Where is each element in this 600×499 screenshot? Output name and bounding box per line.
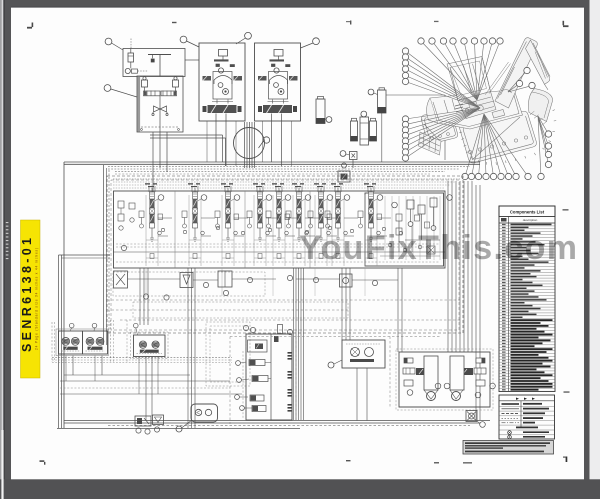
connecting lines (144, 87, 146, 93)
pilot pump block outline (137, 76, 183, 132)
check valve capsule left (144, 91, 161, 96)
scattered pilot circles in bank (161, 228, 164, 231)
callout for travel-R spool (327, 195, 333, 201)
main pump P2 fork (270, 76, 288, 81)
accumulator group (351, 121, 358, 141)
right travel group (476, 358, 485, 363)
solenoid manifold box (338, 171, 350, 182)
callout below swivel box (480, 422, 486, 428)
left return riser (63, 162, 65, 428)
tee line structure (148, 54, 171, 56)
pilot filter block outline (123, 49, 185, 77)
bottom dark band (0, 479, 600, 499)
shuttle box C (218, 271, 232, 287)
boom (495, 38, 537, 108)
main pump P2 orifice circle (274, 68, 279, 73)
shuttle box B (180, 273, 193, 288)
dashed boundary around final drive (396, 349, 493, 410)
nested dashed boundary right of swing motor (206, 322, 250, 386)
main pressure bus lines (64, 161, 480, 163)
swivel line bundle (244, 122, 246, 168)
callout swing motor (134, 323, 139, 328)
callout circle 10 (swivel) (263, 137, 269, 143)
legend line sample (502, 417, 520, 419)
inner sub-box (271, 334, 292, 420)
main pump P1 orifice circle (218, 68, 223, 73)
check valve box A (114, 271, 128, 288)
callout for bucket spool (234, 195, 240, 201)
main pump P2 solenoid left (271, 64, 275, 67)
check valve capsule right (161, 91, 177, 96)
pilot manifold block (246, 334, 292, 420)
legend line sample (502, 403, 520, 405)
main pump P1 outline (199, 43, 245, 121)
internal dividers (174, 191, 176, 268)
yellow sticker tab SENR6138-01 (21, 220, 41, 378)
tick bottom-center (346, 460, 351, 461)
riser bundle center (140, 268, 402, 428)
spool satellite parts (139, 211, 382, 235)
callout circle 5 (pump P2) (313, 38, 320, 45)
excavator callout circles (402, 38, 551, 180)
spool drain wires (146, 195, 377, 266)
far track (421, 111, 457, 144)
valve row 1 (249, 360, 265, 366)
solenoid valve (dark) (151, 59, 155, 63)
right section drain lines (385, 196, 440, 260)
pilot valve right (173, 80, 179, 87)
main pump P2 drain lines (271, 114, 273, 122)
legend symbol rows (508, 431, 512, 435)
dashed boundary between blocks (110, 320, 112, 362)
valve swing spool (258, 188, 263, 241)
left light scrollbar strips (0, 0, 2, 499)
bottom valve box 1 (135, 416, 151, 426)
near track (460, 111, 537, 163)
main pump P1 solenoid left (216, 64, 220, 67)
callout circle 8 (accumulator) (361, 111, 367, 117)
left dashed boundary (51, 322, 53, 362)
house platform (430, 90, 523, 130)
tick top-center-left (172, 22, 177, 23)
dashed box around swing motor (131, 332, 169, 359)
swivel joint circle (234, 128, 265, 159)
callout circle 7 (filter) (368, 89, 374, 95)
small valve box (350, 152, 358, 160)
tiny white text on left frame (6, 222, 9, 223)
svg-text:YouFixThis.com: YouFixThis.com (299, 229, 577, 267)
boom cylinder (485, 62, 510, 95)
main pump P2 inner box (269, 72, 288, 100)
right section extra parts (396, 214, 402, 221)
dozer blade (419, 132, 442, 155)
main pump P1 relief valve right (234, 76, 243, 81)
gauge circle with box (125, 68, 130, 73)
hydraulic tank symbol (316, 99, 325, 124)
dashed bus under motor blocks (52, 357, 232, 359)
port dashes right edge (288, 352, 292, 412)
short links below bank (128, 278, 181, 280)
stick (526, 40, 550, 84)
main pump P2 gauge 2 (278, 89, 284, 95)
callout for offset spool (377, 195, 383, 201)
tick right-upper (563, 209, 569, 210)
main pump P1 gauge 2 (223, 89, 229, 95)
pump P1 drain wires (215, 121, 217, 162)
callout for aux spool (285, 195, 291, 201)
top valve box (248, 340, 268, 352)
callout circle 6 (tank) (326, 117, 332, 123)
main pump P2 outline (255, 43, 301, 121)
main pump P1 tandem pump (dark) (208, 105, 237, 113)
bottom port row in bank (150, 218, 391, 259)
callouts for pilot manifold (236, 361, 241, 366)
left travel group (404, 358, 413, 363)
valve boom spool (150, 188, 155, 241)
lower dashed boundary lines (107, 299, 460, 301)
callout for cooler (176, 426, 182, 432)
tick top-center-right (434, 21, 439, 22)
main pump P2 port row (268, 101, 289, 103)
main control valve body (114, 191, 446, 268)
callout circle 1 (pilot filter) (105, 38, 112, 45)
svg-text:Components List: Components List (510, 210, 545, 215)
left pilot risers (103, 165, 105, 345)
swing motor block (134, 335, 166, 357)
main pump P1 port row (212, 101, 233, 103)
valve bucket spool (226, 188, 231, 241)
pilot circles below bank (121, 245, 126, 250)
callout circle 3 (pump P1) (180, 36, 187, 43)
block F callout circles (407, 390, 413, 396)
right section relief valves (407, 200, 414, 209)
extended drain wires below bank (146, 268, 365, 296)
bucket (528, 89, 552, 122)
spool port labels (145, 183, 376, 187)
table column header (499, 222, 555, 224)
valve travel-L spool (297, 188, 302, 241)
callout for holding valve (328, 362, 334, 368)
tiny doc number bottom (463, 462, 472, 464)
drain jog lines (150, 134, 223, 136)
main pump P2 relief valve right (289, 76, 298, 81)
svg-text:description: description (523, 218, 538, 222)
components list table (499, 206, 555, 392)
center white columns (424, 356, 438, 390)
table rows (499, 225, 555, 227)
corner mark top-left (27, 27, 32, 29)
final drive / travel valve block (399, 352, 490, 407)
oil filter symbol (378, 90, 387, 113)
center swivel box (466, 411, 477, 422)
main pump P1 relief valve left (203, 76, 212, 81)
valve aux spool (277, 188, 282, 241)
right riser bundle from machine (448, 181, 480, 420)
callout circle 9 (valve box) (340, 151, 346, 157)
pilot valve left (142, 80, 148, 87)
corner mark bottom-left (40, 460, 45, 462)
main pump P1 regulator box (219, 50, 228, 57)
bucket cylinder (535, 51, 548, 79)
legend line sample (502, 413, 520, 415)
callout for travel-L spool (305, 195, 311, 201)
valve row 4 (252, 406, 266, 412)
engine cover (458, 92, 496, 119)
solenoid box D (340, 274, 353, 287)
filter element symbol (128, 53, 134, 62)
counterweight (427, 98, 438, 123)
right section small parts (388, 243, 392, 247)
excavator callout leader lines (408, 44, 548, 174)
block bottom dashes (141, 126, 179, 128)
connection dashed box left of manifold (242, 351, 244, 419)
pilot tube dashed box below bank (113, 272, 265, 296)
oil cooler rounded box (191, 404, 218, 422)
riser component above block (278, 325, 283, 334)
callout for boom spool (158, 195, 164, 201)
main pump P1 gauge 1 (218, 83, 223, 88)
callout above manifold (342, 163, 347, 168)
mark bottom-right "1" (566, 457, 568, 463)
travel motor block R (83, 331, 108, 354)
dashed boundary lower area (230, 336, 440, 338)
corner mark top-right (563, 25, 569, 27)
right section box (365, 193, 444, 266)
main pump P1 fork (214, 76, 232, 81)
link to pump block (185, 59, 199, 61)
bottom return bus (64, 420, 490, 422)
left end components of bank (118, 201, 124, 208)
valve offset spool (369, 188, 374, 241)
upper gallery dashed lines (113, 178, 460, 180)
legend line sample (502, 422, 520, 424)
callout travel motor L (69, 323, 74, 328)
outer box around motor pair (56, 329, 109, 356)
main pump P1 solenoid right (230, 64, 235, 67)
valve arm spool (193, 188, 198, 241)
callout for blade spool (344, 195, 350, 201)
callout for arm spool (201, 195, 207, 201)
travel motor block L (59, 331, 83, 354)
boom holding valve block (342, 340, 385, 368)
callout for swing spool (266, 195, 272, 201)
valve row 2 (252, 376, 268, 382)
center fittings dark (455, 104, 463, 112)
bowtie ports (152, 113, 154, 115)
tick top-center (350, 21, 351, 25)
cab (447, 57, 491, 101)
main pump P2 gauge 1 (274, 83, 279, 88)
bottom valve box 2 (153, 415, 164, 425)
valve travel-R spool (319, 188, 324, 241)
main pump P2 relief valve left (258, 76, 267, 81)
main pump P2 solenoid right (285, 64, 290, 67)
legend line sample (502, 408, 520, 410)
pump P2 drain wires (271, 121, 273, 162)
travel motor circles (427, 392, 436, 401)
svg-text:24 Page (Standard size 34 inc: 24 Page (Standard size 34 inches x 44 in… (35, 248, 39, 350)
main pump P1 inner box (213, 72, 232, 100)
solenoid on top (274, 336, 279, 342)
relief bowtie pair (154, 106, 167, 112)
callout circle 2 (pilot block) (104, 85, 111, 92)
main pump P1 drain lines (215, 114, 217, 122)
main pump P2 regulator box (274, 50, 283, 57)
tick right-lower (564, 391, 570, 392)
notes gray box (463, 441, 554, 455)
pilot block drain wires (152, 132, 154, 192)
callout travel motor R (92, 323, 97, 328)
callout circle 4 (between pumps) (245, 32, 252, 39)
top port ticks (149, 186, 374, 192)
main pump P1 dark bar (214, 59, 229, 61)
main pump P2 tandem pump (dark) (263, 105, 292, 113)
line symbols legend box (499, 395, 555, 439)
main pump P2 dark bar (270, 59, 285, 61)
valve row 3 (250, 395, 264, 401)
pilot gallery dashed lines inside bank (116, 243, 440, 245)
main control valve outer dashed boundary (107, 176, 463, 333)
valve blade spool (336, 188, 341, 241)
bottom small circles (136, 428, 141, 433)
left block feed lines (72, 356, 74, 376)
tick bottom-right-center (434, 462, 439, 464)
excavator machine drawing (419, 38, 557, 165)
right light column (590, 0, 600, 480)
table title (499, 206, 555, 217)
